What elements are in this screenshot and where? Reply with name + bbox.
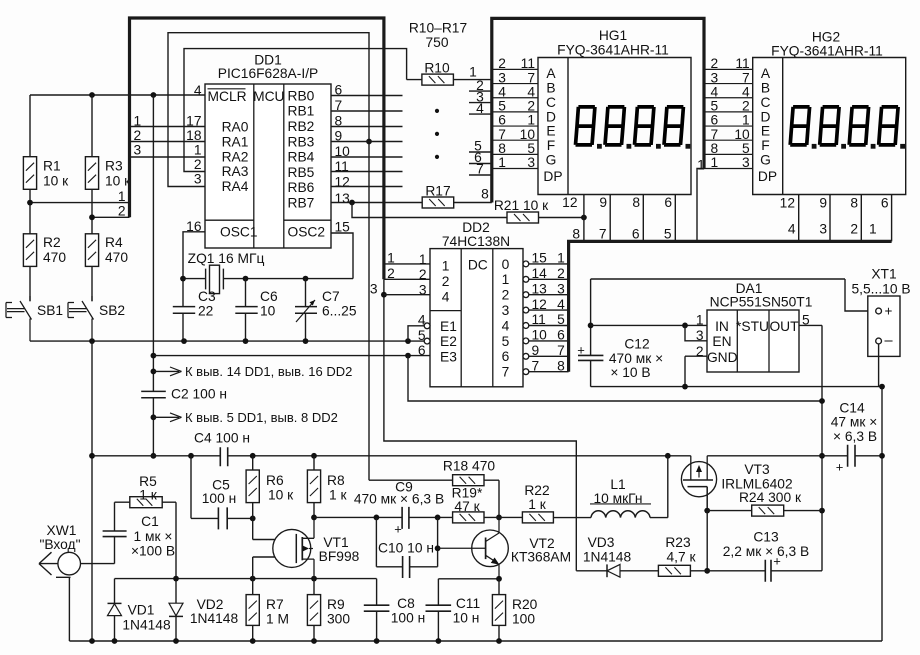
svg-text:IN: IN bbox=[715, 319, 729, 334]
svg-text:1: 1 bbox=[711, 155, 719, 170]
svg-text:C11: C11 bbox=[456, 596, 480, 611]
svg-text:12: 12 bbox=[562, 195, 577, 210]
wire DD2 input 2 bbox=[384, 266, 430, 282]
wire stub w5 bbox=[469, 139, 492, 154]
bus (thick) HG1 segment feed bbox=[492, 18, 704, 202]
resistor R2 bbox=[23, 234, 66, 301]
transistor VT1 BF998 dual-gate MOSFET bbox=[273, 517, 360, 578]
wire HG1 pin8 stub bbox=[632, 195, 643, 242]
wire gnd row C12/DA1/XT1 bbox=[591, 386, 882, 388]
output 7 bubble+wire (pin 7, wire 8) bbox=[523, 358, 569, 374]
svg-text:4: 4 bbox=[194, 83, 202, 98]
svg-text:G: G bbox=[546, 153, 557, 168]
svg-text:7: 7 bbox=[742, 70, 750, 85]
svg-text:5: 5 bbox=[527, 141, 535, 156]
resistor R5 bbox=[130, 474, 176, 578]
svg-text:NCP551SN50T1: NCP551SN50T1 bbox=[710, 295, 813, 310]
svg-text:D: D bbox=[546, 109, 556, 124]
svg-text:1 к: 1 к bbox=[528, 497, 547, 512]
svg-text:6: 6 bbox=[632, 226, 640, 241]
svg-text:VT3: VT3 bbox=[744, 462, 770, 477]
svg-text:+: + bbox=[836, 459, 844, 474]
junction gnd bus x=114.5 bbox=[112, 638, 118, 644]
svg-text:R2: R2 bbox=[43, 235, 61, 250]
svg-text:C3: C3 bbox=[198, 289, 216, 304]
wire stub w7 bbox=[469, 162, 492, 177]
diode VD2 1N4148 bbox=[169, 579, 238, 641]
svg-text:6: 6 bbox=[502, 349, 510, 364]
svg-text:2: 2 bbox=[387, 266, 395, 281]
wire DA1 IN row bbox=[591, 324, 707, 326]
svg-text:EN: EN bbox=[712, 334, 731, 349]
capacitor C6 bbox=[235, 279, 278, 342]
wire HG2 pin8 stub bbox=[850, 195, 861, 242]
svg-text:R24 300 к: R24 300 к bbox=[739, 490, 802, 505]
wire 2 from R3/R4 node to bus bbox=[89, 204, 129, 221]
svg-text:R8: R8 bbox=[327, 473, 345, 488]
decoder DD2 74HC138N bbox=[430, 220, 523, 387]
svg-text:1: 1 bbox=[557, 251, 565, 266]
svg-text:RB5: RB5 bbox=[288, 165, 315, 180]
wire gate2 bbox=[253, 518, 297, 539]
wire rail VT3 right side bbox=[707, 455, 882, 457]
svg-text:VD1: VD1 bbox=[128, 603, 155, 618]
junction ZQ1 left / C3 bbox=[180, 276, 186, 282]
output 0 bubble+wire (pin 15, wire 1) bbox=[523, 251, 569, 267]
wire RB3 stub bbox=[331, 141, 403, 143]
wire emitter row bbox=[438, 579, 499, 605]
capacitor C10 bbox=[376, 517, 437, 578]
svg-text:15: 15 bbox=[532, 251, 548, 266]
svg-text:3: 3 bbox=[370, 281, 378, 296]
svg-text:RB2: RB2 bbox=[288, 119, 315, 134]
svg-text:1: 1 bbox=[869, 221, 877, 236]
capacitor C8 bbox=[364, 579, 425, 641]
svg-text:FYQ-3641AHR-11: FYQ-3641AHR-11 bbox=[771, 43, 883, 58]
pushbutton SB1 bbox=[6, 296, 63, 341]
svg-text:4: 4 bbox=[527, 84, 535, 99]
wire C5 to R6 node bbox=[227, 517, 253, 519]
svg-text:*STU: *STU bbox=[736, 319, 769, 334]
svg-text:1 к: 1 к bbox=[329, 488, 348, 503]
svg-text:DC: DC bbox=[468, 257, 488, 272]
junction node R3 top bbox=[89, 92, 95, 98]
wire gnd vertical x92 bbox=[91, 341, 93, 641]
junction VD2/R5 bbox=[173, 576, 179, 582]
wire GND pin row bbox=[685, 356, 707, 386]
wire C1 to R5 bbox=[115, 502, 130, 531]
svg-text:750: 750 bbox=[425, 35, 448, 50]
junction VT3 gate / R24 bbox=[704, 508, 710, 514]
svg-text:RA3: RA3 bbox=[222, 164, 249, 179]
junction C5 branch bbox=[188, 453, 194, 459]
junction DA1 gnd bbox=[682, 384, 688, 390]
svg-text:5: 5 bbox=[742, 141, 750, 156]
wire C9 to R19 node bbox=[409, 516, 453, 518]
svg-text:DP: DP bbox=[543, 169, 562, 184]
svg-text:8: 8 bbox=[572, 226, 580, 241]
resistor R24 bbox=[707, 490, 822, 516]
svg-text:1N4148: 1N4148 bbox=[122, 618, 171, 633]
wire XT1+ rail bbox=[591, 279, 876, 311]
output 6 bubble+wire (pin 9, wire 7) bbox=[523, 343, 569, 359]
wire 3 continuation of bus (thin) to L1 node bbox=[384, 279, 576, 571]
resistor R18 bbox=[369, 459, 499, 518]
svg-text:C10 10 н: C10 10 н bbox=[378, 540, 434, 555]
svg-text:C1: C1 bbox=[141, 514, 159, 529]
wire RB4 stub bbox=[331, 156, 403, 158]
pushbutton SB2 bbox=[68, 296, 125, 341]
svg-text:9: 9 bbox=[599, 195, 607, 210]
svg-text:1: 1 bbox=[419, 252, 427, 267]
wire HG2 digit-1 feed bbox=[697, 157, 705, 241]
svg-text:12: 12 bbox=[532, 297, 547, 312]
svg-text:XT1: XT1 bbox=[871, 267, 896, 282]
svg-text:6: 6 bbox=[418, 343, 426, 358]
wire XT1 minus to gnd bbox=[879, 344, 882, 641]
junction IN/EN tie bbox=[682, 323, 688, 329]
svg-text:R20: R20 bbox=[512, 597, 538, 612]
ellipsis dots R11-R16 bbox=[435, 109, 439, 159]
svg-text:R21 10 к: R21 10 к bbox=[494, 198, 549, 213]
svg-text:RB4: RB4 bbox=[288, 150, 315, 165]
svg-text:470 мк × 6,3 В: 470 мк × 6,3 В bbox=[354, 491, 444, 506]
svg-text:E3: E3 bbox=[440, 349, 457, 364]
svg-text:7: 7 bbox=[476, 162, 484, 177]
junction +5V to E3 row bbox=[151, 353, 157, 359]
junction emitter/R20/C11 bbox=[496, 576, 502, 582]
wire RB1 stub bbox=[331, 110, 403, 112]
pin6 E3 label bbox=[418, 343, 426, 358]
resistor R10 bbox=[422, 60, 492, 85]
wire R22 to L1 bbox=[553, 517, 591, 519]
svg-text:К выв. 14 DD1, выв. 16 DD2: К выв. 14 DD1, выв. 16 DD2 bbox=[185, 364, 352, 379]
output 3 bubble+wire (pin 12, wire 4) bbox=[523, 297, 569, 313]
svg-text:4: 4 bbox=[418, 313, 426, 328]
arrow to pin 5 DD1 / 8 DD2 bbox=[153, 410, 337, 425]
svg-text:R18 470: R18 470 bbox=[443, 459, 495, 474]
svg-text:11: 11 bbox=[532, 312, 546, 327]
svg-text:R3: R3 bbox=[105, 158, 123, 173]
svg-text:1: 1 bbox=[527, 113, 535, 128]
labels HG2 stub wire numbers bbox=[788, 221, 877, 236]
svg-text:47 к: 47 к bbox=[454, 499, 480, 514]
junction R6 top bbox=[250, 453, 256, 459]
svg-text:1 М: 1 М bbox=[266, 612, 289, 627]
wire +5V/E3 row to DD2 bbox=[153, 355, 430, 357]
wire DD2 input 3 bbox=[370, 281, 430, 297]
svg-text:3: 3 bbox=[194, 172, 202, 187]
svg-text:E: E bbox=[761, 124, 770, 139]
svg-text:2: 2 bbox=[527, 99, 535, 114]
resistor R6 bbox=[246, 456, 294, 519]
junction VCC arrow 1 bbox=[151, 369, 157, 375]
wire HG1 pin6 stub bbox=[664, 195, 675, 242]
junction gnd bus x=499 bbox=[496, 638, 502, 644]
svg-text:470: 470 bbox=[43, 250, 66, 265]
svg-text:+: + bbox=[577, 342, 585, 357]
wire HG2 pin12 stub bbox=[780, 195, 799, 242]
resistor R3 bbox=[85, 95, 131, 234]
svg-text:2: 2 bbox=[711, 56, 719, 71]
junction OUT to C14 row bbox=[819, 453, 825, 459]
svg-text:0: 0 bbox=[502, 257, 510, 272]
svg-text:9: 9 bbox=[819, 196, 827, 211]
svg-text:1N4148: 1N4148 bbox=[583, 549, 632, 564]
svg-text:5: 5 bbox=[498, 99, 506, 114]
svg-text:8: 8 bbox=[481, 187, 489, 202]
wire DD2 input 1 bbox=[384, 251, 430, 267]
resistor R21 bbox=[494, 198, 584, 223]
diode VD1 1N4148 bbox=[108, 579, 171, 641]
svg-text:–: – bbox=[884, 333, 893, 349]
svg-text:RA1: RA1 bbox=[222, 135, 249, 150]
svg-text:13: 13 bbox=[532, 281, 548, 296]
svg-text:R17: R17 bbox=[425, 183, 450, 198]
svg-text:6: 6 bbox=[498, 113, 506, 128]
transistor VT3 IRLML6402 bbox=[681, 456, 792, 511]
svg-text:R4: R4 bbox=[105, 235, 123, 250]
resistor R8 bbox=[307, 456, 347, 518]
svg-text:8: 8 bbox=[711, 141, 719, 156]
svg-text:10 к: 10 к bbox=[268, 488, 294, 503]
resistor R19 bbox=[452, 486, 484, 523]
svg-text:1: 1 bbox=[696, 313, 704, 328]
svg-text:1: 1 bbox=[194, 143, 202, 158]
wire RB6 stub bbox=[331, 186, 403, 188]
junction gnd bus x=438.4 bbox=[436, 638, 442, 644]
svg-text:"Вход": "Вход" bbox=[39, 537, 80, 552]
svg-text:2: 2 bbox=[557, 266, 565, 281]
svg-text:C: C bbox=[546, 95, 556, 110]
wire RB7 branch to R21 bbox=[352, 203, 507, 218]
junction C9/C10/R19 bbox=[435, 515, 441, 521]
svg-text:L1: L1 bbox=[610, 477, 625, 492]
junction GND arrow 2 bbox=[151, 414, 157, 420]
wire RA4 loop to RB3/R18 line bbox=[168, 33, 369, 481]
wire E1 tie to E2 bbox=[408, 326, 424, 341]
resistor R23 bbox=[658, 535, 707, 576]
svg-text:1 мк ×: 1 мк × bbox=[134, 529, 173, 544]
svg-text:OSC2: OSC2 bbox=[288, 224, 326, 239]
svg-text:10 н: 10 н bbox=[453, 611, 480, 626]
junction R18/R19/collector bbox=[496, 515, 502, 521]
wire HG2 pin9 stub bbox=[819, 195, 830, 242]
svg-text:4: 4 bbox=[442, 289, 450, 304]
svg-text:BF998: BF998 bbox=[319, 549, 360, 564]
svg-text:5: 5 bbox=[711, 99, 719, 114]
svg-text:RA2: RA2 bbox=[222, 150, 249, 165]
svg-text:4: 4 bbox=[476, 101, 484, 116]
svg-text:5: 5 bbox=[557, 312, 565, 327]
svg-text:× 6,3 В: × 6,3 В bbox=[833, 429, 877, 444]
svg-text:R23: R23 bbox=[665, 535, 691, 550]
capacitor C9 bbox=[354, 480, 444, 537]
output 4 bubble+wire (pin 11, wire 5) bbox=[523, 312, 569, 328]
svg-text:F: F bbox=[761, 138, 769, 153]
svg-text:470: 470 bbox=[105, 250, 128, 265]
junction E3 row to DA1-out link bbox=[405, 353, 411, 359]
svg-text:+: + bbox=[394, 522, 402, 537]
svg-text:2: 2 bbox=[118, 204, 126, 219]
svg-text:RB6: RB6 bbox=[288, 180, 315, 195]
svg-text:B: B bbox=[546, 81, 555, 96]
svg-text:SB2: SB2 bbox=[99, 303, 125, 318]
wire OSC1 bbox=[183, 232, 205, 307]
wire XW1 to C1 bbox=[81, 537, 115, 564]
svg-text:R6: R6 bbox=[266, 473, 284, 488]
trimmer capacitor C7 bbox=[295, 279, 357, 342]
wire RA1 (bus wire 2) bbox=[130, 128, 206, 143]
wire RB0 stub bbox=[331, 95, 403, 97]
wire to R22 bbox=[484, 516, 522, 518]
svg-text:8: 8 bbox=[850, 196, 858, 211]
svg-text:1: 1 bbox=[498, 155, 506, 170]
svg-text:1: 1 bbox=[118, 189, 126, 204]
arrow to pin 14 DD1 / 16 DD2 bbox=[153, 364, 352, 379]
resistor R22 bbox=[522, 483, 553, 523]
svg-text:× 10 В: × 10 В bbox=[610, 365, 650, 380]
wire RB7 to R17 bbox=[331, 202, 422, 204]
junction C5/R6/gate2 bbox=[250, 516, 256, 522]
svg-text:G: G bbox=[760, 153, 771, 168]
svg-text:74HC138N: 74HC138N bbox=[442, 234, 510, 249]
junction C3 bottom bbox=[181, 338, 187, 344]
svg-text:2: 2 bbox=[419, 267, 427, 282]
diode VD3 1N4148 bbox=[576, 535, 658, 577]
svg-text:2: 2 bbox=[742, 99, 750, 114]
junction gnd bus x=314 bbox=[311, 638, 317, 644]
svg-text:2: 2 bbox=[696, 344, 704, 359]
wire HG2 pin6 stub bbox=[881, 195, 892, 242]
svg-text:R10: R10 bbox=[424, 60, 450, 75]
svg-text:1N4148: 1N4148 bbox=[190, 611, 239, 626]
svg-text:3: 3 bbox=[696, 328, 704, 343]
svg-text:RB7: RB7 bbox=[288, 196, 315, 211]
svg-text:7: 7 bbox=[502, 365, 510, 380]
svg-text:C14: C14 bbox=[839, 400, 865, 415]
wire RB5 stub bbox=[331, 171, 403, 173]
svg-text:3: 3 bbox=[711, 70, 719, 85]
svg-text:C7: C7 bbox=[322, 289, 340, 304]
svg-text:HG1: HG1 bbox=[599, 28, 627, 43]
wire stub w4 bbox=[469, 101, 492, 116]
junction gnd bus x=92 bbox=[89, 638, 95, 644]
inductor L1 bbox=[590, 477, 651, 517]
svg-text:C12: C12 bbox=[624, 337, 649, 352]
svg-text:3: 3 bbox=[419, 283, 427, 298]
svg-text:3: 3 bbox=[819, 221, 827, 236]
svg-text:10: 10 bbox=[260, 303, 276, 318]
svg-text:2: 2 bbox=[134, 128, 142, 143]
svg-text:100 н: 100 н bbox=[202, 491, 236, 506]
svg-text:15: 15 bbox=[335, 219, 351, 234]
wire drain row to C9 bbox=[314, 516, 402, 518]
svg-text:6: 6 bbox=[557, 328, 565, 343]
resistor R9 bbox=[307, 579, 350, 641]
svg-text:2: 2 bbox=[502, 288, 510, 303]
junction RA4/RB3 bbox=[366, 139, 372, 145]
svg-text:4: 4 bbox=[498, 84, 506, 99]
capacitor C4 bbox=[194, 430, 250, 466]
junction SB2 column gnd bbox=[89, 338, 95, 344]
wire mid rail left(gnd) bbox=[92, 455, 220, 457]
svg-text:1: 1 bbox=[387, 251, 395, 266]
wire RB2 stub bbox=[331, 126, 403, 128]
svg-text:1 к: 1 к bbox=[139, 488, 158, 503]
svg-text:3: 3 bbox=[742, 155, 750, 170]
svg-text:5: 5 bbox=[502, 334, 510, 349]
svg-text:7: 7 bbox=[599, 226, 607, 241]
svg-text:OUT: OUT bbox=[769, 319, 799, 334]
junction C7 top bbox=[303, 276, 309, 282]
junction R7/gate1 bbox=[250, 576, 256, 582]
svg-text:F: F bbox=[547, 138, 555, 153]
svg-text:C13: C13 bbox=[753, 529, 779, 544]
svg-text:7: 7 bbox=[527, 70, 535, 85]
label R10-R17 750 bbox=[409, 21, 467, 51]
svg-text:4: 4 bbox=[557, 297, 565, 312]
svg-text:1: 1 bbox=[742, 113, 750, 128]
svg-text:E2: E2 bbox=[440, 334, 457, 349]
svg-text:C8: C8 bbox=[397, 596, 415, 611]
svg-text:4: 4 bbox=[502, 318, 510, 333]
bus (thick) digit select bbox=[569, 241, 892, 371]
capacitor C1 bbox=[103, 514, 175, 558]
output 5 bubble+wire (pin 10, wire 6) bbox=[523, 328, 569, 344]
svg-text:RB0: RB0 bbox=[288, 88, 315, 103]
svg-text:MCLR: MCLR bbox=[208, 89, 247, 104]
wire +5V column bbox=[152, 95, 154, 456]
svg-text:7: 7 bbox=[557, 343, 565, 358]
svg-text:100 н: 100 н bbox=[391, 611, 425, 626]
svg-text:4: 4 bbox=[788, 221, 796, 236]
junction L1 up bbox=[665, 453, 671, 459]
svg-text:VT1: VT1 bbox=[323, 535, 348, 550]
svg-text:5,5...10 В: 5,5...10 В bbox=[851, 282, 910, 297]
svg-text:8: 8 bbox=[498, 141, 506, 156]
capacitor C2 bbox=[141, 387, 227, 402]
wire ground bus bbox=[69, 640, 882, 642]
capacitor C14 bbox=[831, 400, 878, 474]
svg-text:R9: R9 bbox=[327, 597, 345, 612]
junction wire3 to DD2 bbox=[381, 292, 387, 298]
svg-text:MCU: MCU bbox=[253, 89, 284, 104]
svg-text:3: 3 bbox=[502, 303, 510, 318]
svg-text:1: 1 bbox=[502, 272, 510, 287]
resistor R1 bbox=[23, 95, 69, 234]
svg-text:+: + bbox=[885, 303, 893, 318]
wire RA3 loop to R10 feed bbox=[184, 49, 422, 172]
junction OUT to E3 net bbox=[819, 398, 825, 404]
junction C12 top / IN row bbox=[588, 323, 594, 329]
svg-text:VD2: VD2 bbox=[197, 597, 224, 612]
crystal ZQ1 bbox=[188, 251, 265, 293]
svg-text:6: 6 bbox=[711, 113, 719, 128]
svg-text:C2 100 н: C2 100 н bbox=[171, 387, 227, 402]
svg-text:11: 11 bbox=[521, 56, 535, 71]
svg-text:ZQ1 16 МГц: ZQ1 16 МГц bbox=[188, 251, 265, 266]
pin5 E2 bubble bbox=[418, 328, 430, 344]
connector XT1 power input bbox=[851, 267, 910, 357]
svg-text:D: D bbox=[761, 109, 771, 124]
svg-text:2: 2 bbox=[850, 221, 858, 236]
svg-text:C: C bbox=[761, 95, 771, 110]
svg-text:7: 7 bbox=[532, 358, 540, 373]
svg-text:10 к: 10 к bbox=[105, 173, 131, 188]
wire 1 from R1/R2 node to bus bbox=[27, 189, 129, 206]
wire RA0 (bus wire 1) bbox=[130, 114, 206, 129]
